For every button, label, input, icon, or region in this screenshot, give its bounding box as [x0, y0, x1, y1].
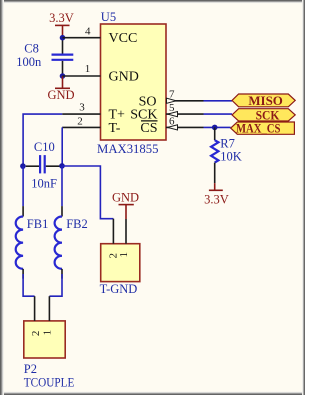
- svg-text:1: 1: [118, 252, 130, 257]
- op-amp U1 ... actually IC U5 MAX31855 body: [101, 24, 167, 140]
- svg-text:CS: CS: [140, 121, 157, 136]
- wire C10 right to T-GND branch: [62, 166, 113, 219]
- svg-text:5: 5: [169, 102, 175, 114]
- svg-text:GND: GND: [112, 191, 139, 205]
- svg-text:GND: GND: [109, 70, 139, 85]
- pin 4 (VCC): [63, 37, 101, 39]
- power port 3.3V (top left): [49, 11, 74, 37]
- T-GND pin 1: [125, 219, 127, 244]
- svg-text:C10: C10: [34, 140, 55, 154]
- wire T- down: [61, 127, 63, 165]
- svg-text:2: 2: [30, 331, 42, 337]
- power port GND (above T-GND): [112, 191, 139, 220]
- wire CS net: [204, 126, 231, 128]
- wire FB1 to P2 pin2: [23, 274, 34, 296]
- ferrite bead FB1: [16, 166, 23, 279]
- svg-text:2: 2: [77, 116, 83, 128]
- pin 3 (T+): [62, 113, 100, 115]
- pin 5 (SCK) with in arrow: [166, 113, 204, 115]
- junction node CS/R7: [212, 125, 218, 131]
- T-GND pin 2: [112, 219, 114, 244]
- svg-text:3.3V: 3.3V: [204, 192, 229, 206]
- svg-text:10nF: 10nF: [31, 177, 57, 191]
- svg-text:T-: T-: [109, 121, 121, 136]
- capacitor C10: [26, 155, 62, 173]
- capacitor C8: [52, 38, 74, 76]
- connector T-GND: [101, 219, 140, 282]
- connector P2: [24, 296, 65, 358]
- resistor R7: [211, 127, 218, 183]
- pin 2 (T-): [62, 126, 100, 128]
- svg-text:FB1: FB1: [27, 217, 49, 231]
- svg-text:10K: 10K: [220, 149, 242, 163]
- svg-text:3: 3: [79, 101, 85, 113]
- svg-text:C8: C8: [24, 41, 39, 55]
- svg-text:MAX31855: MAX31855: [97, 142, 159, 156]
- svg-text:T-GND: T-GND: [100, 282, 138, 296]
- svg-text:1: 1: [41, 330, 53, 336]
- svg-text:GND: GND: [47, 88, 74, 102]
- pin 7 (SO) with out arrow: [166, 100, 204, 102]
- svg-text:1: 1: [85, 63, 91, 75]
- junction node C10 right: [59, 163, 65, 169]
- port MISO: [232, 93, 295, 108]
- svg-text:6: 6: [169, 115, 175, 127]
- wire SO net: [204, 100, 233, 102]
- junction node GND (C8 bottom): [60, 73, 66, 79]
- svg-text:MAX_CS: MAX_CS: [236, 120, 281, 135]
- svg-text:FB2: FB2: [66, 217, 88, 231]
- svg-text:100n: 100n: [16, 55, 42, 69]
- wire FB2 to P2 pin1: [49, 274, 62, 296]
- pin 6 (CS) with in arrow: [166, 126, 204, 128]
- svg-text:3.3V: 3.3V: [49, 11, 74, 25]
- svg-text:4: 4: [85, 25, 91, 37]
- port SCK: [232, 108, 295, 123]
- wire SCK net: [204, 113, 233, 115]
- svg-text:VCC: VCC: [109, 31, 138, 46]
- power port 3.3V (below R7): [204, 183, 229, 206]
- junction node VCC: [60, 35, 66, 41]
- svg-text:U5: U5: [101, 10, 116, 24]
- wire T+ to left column: [23, 114, 62, 166]
- power port GND (below C8): [47, 76, 74, 102]
- svg-text:7: 7: [169, 88, 175, 100]
- P2 pin 1: [48, 296, 50, 321]
- CS overbar: [141, 120, 158, 122]
- port MAX_CS: [231, 120, 295, 135]
- svg-text:P2: P2: [24, 362, 37, 376]
- svg-text:MISO: MISO: [248, 93, 283, 108]
- ferrite bead FB2: [55, 166, 62, 279]
- pin 1 (GND): [63, 75, 101, 77]
- P2 pin 2: [34, 296, 36, 321]
- junction node C10 left: [20, 163, 26, 169]
- svg-text:TCOUPLE: TCOUPLE: [24, 376, 75, 390]
